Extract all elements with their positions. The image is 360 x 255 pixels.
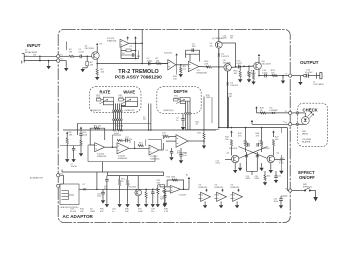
svg-text:C2: C2 xyxy=(130,46,132,48)
svg-text:R4: R4 xyxy=(122,53,124,55)
svg-text:AC ADAPTOR: AC ADAPTOR xyxy=(30,176,43,179)
svg-text:NJM4558L: NJM4558L xyxy=(150,159,161,161)
svg-text:OUTPUT: OUTPUT xyxy=(300,60,319,65)
svg-text:P1: P1 xyxy=(61,173,63,175)
svg-text:10K: 10K xyxy=(173,79,177,81)
svg-text:1u: 1u xyxy=(176,120,178,122)
svg-text:(RED): (RED) xyxy=(302,133,308,135)
svg-text:P2: P2 xyxy=(61,184,63,186)
svg-text:4.7K: 4.7K xyxy=(164,211,169,213)
svg-text:AC ADAPTOR: AC ADAPTOR xyxy=(63,214,94,219)
svg-text:2SC2458: 2SC2458 xyxy=(85,48,95,50)
svg-text:18/50: 18/50 xyxy=(246,178,251,180)
svg-text:(503EVQ2): (503EVQ2) xyxy=(125,110,136,112)
svg-text:INPUT: INPUT xyxy=(27,43,41,48)
svg-text:33u: 33u xyxy=(143,119,146,121)
svg-text:0.47u: 0.47u xyxy=(216,163,221,165)
svg-text:IC1(2/2): IC1(2/2) xyxy=(164,53,172,55)
svg-text:NJM4558L: NJM4558L xyxy=(215,187,224,189)
svg-text:10u: 10u xyxy=(183,155,186,157)
svg-text:ON/OFF: ON/OFF xyxy=(299,175,315,180)
svg-text:2SC2458: 2SC2458 xyxy=(128,187,137,189)
svg-text:10K: 10K xyxy=(247,75,251,77)
svg-text:1M: 1M xyxy=(230,38,233,40)
svg-text:P6: P6 xyxy=(61,59,63,61)
svg-text:P7: P7 xyxy=(285,74,287,76)
svg-text:DEPTH: DEPTH xyxy=(174,89,188,94)
svg-text:(103EVQ2): (103EVQ2) xyxy=(91,110,102,112)
svg-text:1M: 1M xyxy=(90,64,93,66)
svg-text:100u: 100u xyxy=(274,201,278,203)
svg-text:Q4: Q4 xyxy=(277,153,280,155)
svg-text:P3: P3 xyxy=(285,111,287,113)
svg-text:OUT/JACK: OUT/JACK xyxy=(313,83,324,86)
svg-text:NJM4558L: NJM4558L xyxy=(97,156,108,158)
svg-text:P5: P5 xyxy=(61,54,63,56)
svg-text:R24: R24 xyxy=(267,175,270,177)
svg-text:C21: C21 xyxy=(278,175,281,177)
svg-text:RATE: RATE xyxy=(100,89,111,94)
svg-text:0.047: 0.047 xyxy=(79,52,85,54)
svg-text:1u/50: 1u/50 xyxy=(262,72,268,74)
svg-text:2SC2458: 2SC2458 xyxy=(262,63,272,65)
svg-text:R11 1M: R11 1M xyxy=(94,125,101,127)
svg-text:R12 1M: R12 1M xyxy=(116,125,123,127)
svg-text:B1: B1 xyxy=(186,174,188,176)
svg-text:33P: 33P xyxy=(192,46,196,48)
svg-text:18/50: 18/50 xyxy=(258,143,263,145)
svg-text:18/50: 18/50 xyxy=(254,178,259,180)
svg-text:NJM4558L: NJM4558L xyxy=(231,187,240,189)
svg-text:1S2473: 1S2473 xyxy=(230,85,238,87)
svg-text:10u: 10u xyxy=(151,211,154,213)
svg-text:TR-2 TREMOLO: TR-2 TREMOLO xyxy=(118,69,158,75)
svg-text:1u/50: 1u/50 xyxy=(114,133,120,135)
svg-text:22K: 22K xyxy=(204,64,208,66)
svg-text:R23 100K: R23 100K xyxy=(167,177,177,179)
svg-text:NJM4558L: NJM4558L xyxy=(199,187,208,189)
svg-text:100K: 100K xyxy=(138,211,143,213)
svg-text:18/50: 18/50 xyxy=(243,143,248,145)
svg-text:1M: 1M xyxy=(234,73,237,75)
svg-text:CHECK: CHECK xyxy=(303,107,319,112)
svg-text:10K: 10K xyxy=(156,61,160,63)
svg-text:P4: P4 xyxy=(285,122,287,124)
svg-text:0.047: 0.047 xyxy=(236,63,242,65)
svg-text:1M: 1M xyxy=(33,54,36,56)
svg-text:1u/50: 1u/50 xyxy=(147,61,153,63)
svg-text:(104EVQ2): (104EVQ2) xyxy=(163,110,174,112)
svg-text:BLAZER: BLAZER xyxy=(302,140,311,143)
svg-text:(EFFECT): (EFFECT) xyxy=(303,186,312,188)
svg-text:1S2473: 1S2473 xyxy=(221,56,229,58)
svg-text:100u: 100u xyxy=(97,196,101,198)
svg-text:R43: R43 xyxy=(280,158,283,160)
svg-text:NJM4558L: NJM4558L xyxy=(197,72,208,74)
svg-text:NJM4558L: NJM4558L xyxy=(118,158,129,160)
svg-text:47u/16: 47u/16 xyxy=(70,211,77,213)
svg-text:NJM4558L: NJM4558L xyxy=(107,41,118,43)
svg-text:WAVE: WAVE xyxy=(123,89,135,94)
svg-text:1M: 1M xyxy=(69,52,72,54)
svg-text:1u: 1u xyxy=(112,211,114,213)
svg-text:47u/16V: 47u/16V xyxy=(305,72,313,74)
svg-text:2SC2458: 2SC2458 xyxy=(229,148,237,150)
svg-text:100K: 100K xyxy=(83,135,88,137)
svg-text:100P: 100P xyxy=(223,38,228,40)
svg-text:10u/16: 10u/16 xyxy=(71,166,78,168)
svg-text:LN28RP: LN28RP xyxy=(270,110,279,112)
svg-text:Q3: Q3 xyxy=(227,153,230,155)
svg-text:IC3(1/2): IC3(1/2) xyxy=(179,194,187,196)
svg-text:100K: 100K xyxy=(162,135,167,137)
svg-text:100K: 100K xyxy=(206,97,211,99)
svg-text:PCB ASSY 70981290: PCB ASSY 70981290 xyxy=(115,75,162,81)
svg-text:P8: P8 xyxy=(285,189,287,191)
svg-text:10u: 10u xyxy=(210,45,213,47)
